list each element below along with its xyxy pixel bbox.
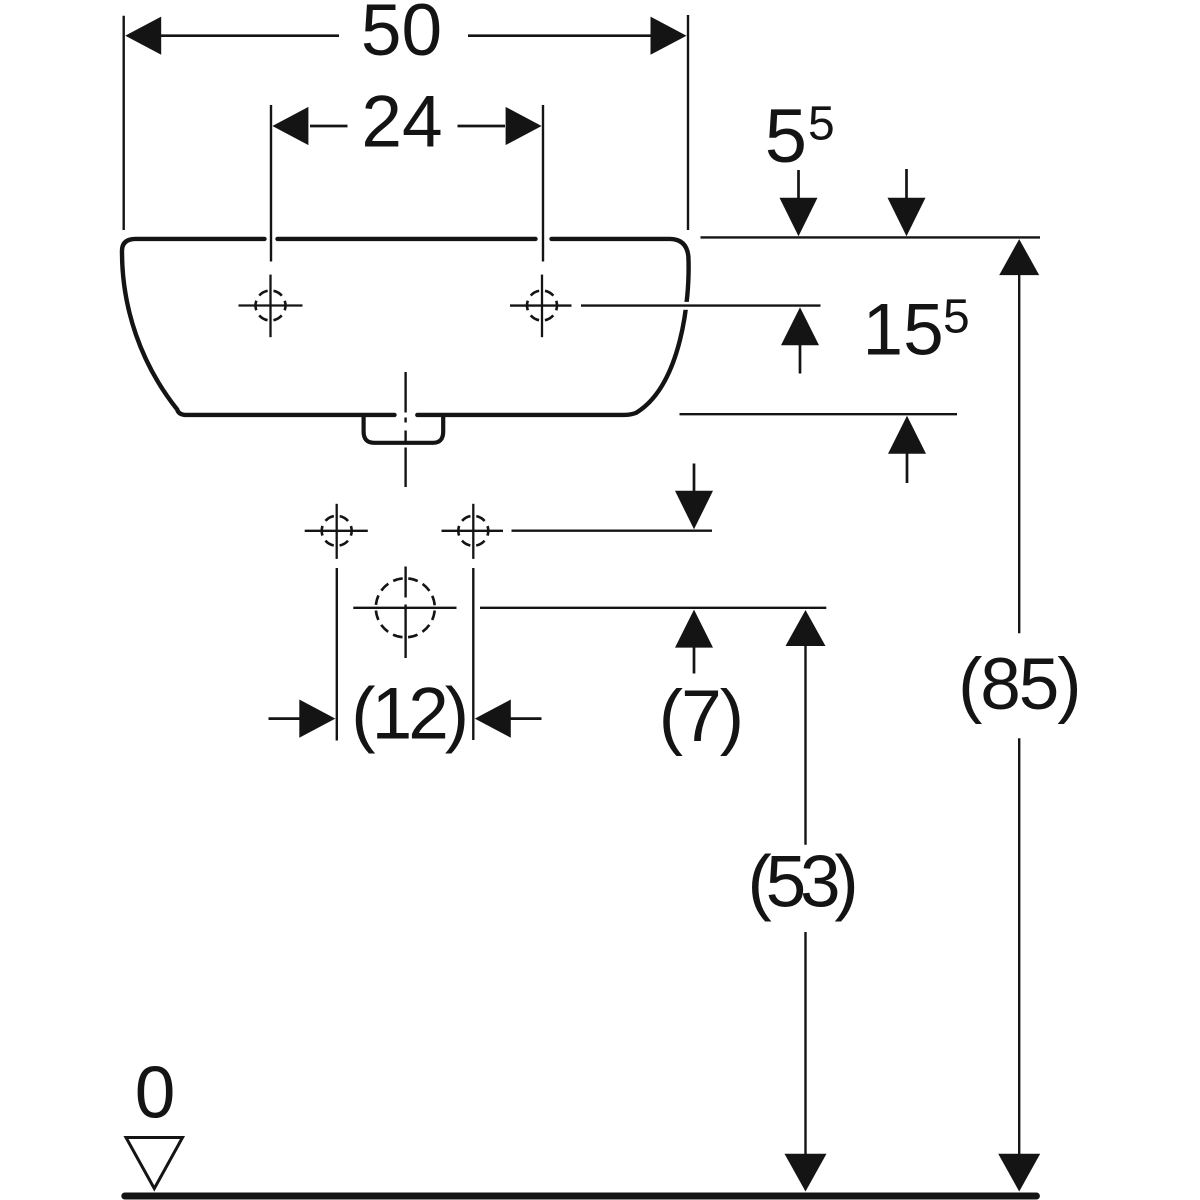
upper left fixing hole crosshair [239, 304, 303, 306]
extension line right of dim 50 [687, 15, 689, 230]
svg-text:(85): (85) [958, 644, 1079, 725]
washbasin outline: top right and right side [417, 239, 688, 415]
lower left fixing hole crosshair [305, 530, 368, 532]
svg-text:24: 24 [361, 82, 442, 163]
tap hole axis reference line [510, 304, 572, 306]
dim 85 down arrowhead at floor [998, 1154, 1040, 1192]
dim 85 line lower segment [1018, 738, 1020, 1154]
svg-text:(53): (53) [747, 841, 854, 922]
dimension line 24 right segment [458, 125, 506, 128]
extension line left of dim 24 [270, 105, 272, 262]
top reference line (rim level) [701, 236, 1041, 238]
vertical centerline through mixer hole [404, 567, 406, 598]
upper right fixing hole crosshair [541, 275, 543, 338]
vertical centerline through drain [404, 372, 406, 413]
datum level triangle [126, 1138, 183, 1189]
dimension line 50 left segment [160, 34, 339, 37]
up arrow of dim 7 at mixer axis [675, 610, 713, 648]
arrowhead 24 left [272, 107, 308, 145]
dimension line 24 left segment [310, 125, 348, 128]
dimension line 50 right segment [468, 34, 652, 37]
mixer hole axis reference line right part [480, 607, 826, 609]
dim 53 line lower segment [804, 932, 806, 1154]
dim 53 up arrowhead [786, 610, 826, 646]
lower right fixing hole crosshair [442, 530, 504, 532]
svg-text:5: 5 [808, 98, 835, 151]
dim 85 line upper segment [1018, 275, 1020, 633]
gap in outline where tap hole axis line crosses [679, 302, 692, 310]
siphon cover notch [364, 416, 444, 443]
arrowhead 50 left [125, 17, 161, 55]
up arrow of dim 15.5 below basin bottom line [888, 416, 926, 454]
svg-text:5: 5 [943, 291, 970, 344]
arrowhead 24 right [506, 107, 542, 145]
extension line left of dim 12 [336, 568, 338, 741]
svg-text:(12): (12) [351, 674, 465, 755]
lower hole axis reference line [512, 530, 713, 532]
extension line left of dim 50 [122, 16, 124, 230]
dim 53 down arrowhead at floor [785, 1154, 827, 1192]
basin bottom reference line [680, 413, 958, 415]
down arrow of dim 15.5 at top reference line [905, 169, 908, 199]
dim 12 left arrow [269, 717, 301, 720]
svg-text:(7): (7) [659, 676, 742, 757]
extension line right of dim 12 [472, 568, 474, 740]
dim 85 up arrowhead [999, 239, 1039, 275]
dim 53 line upper segment [804, 646, 806, 845]
extension line right of dim 24 [542, 105, 544, 262]
up arrow of dim 5.5 below tap hole axis [781, 307, 819, 345]
washbasin outline: left side and bottom [122, 239, 395, 415]
floor line [125, 1193, 1037, 1200]
dim 12 right arrow [475, 700, 511, 738]
svg-text:50: 50 [361, 0, 442, 71]
svg-text:15: 15 [863, 290, 944, 371]
svg-text:0: 0 [135, 1053, 176, 1134]
washbasin outline: top middle segment [278, 237, 536, 241]
mixer tap hole dashed circle [376, 578, 435, 637]
arrowhead 50 right [651, 17, 687, 55]
down arrow of dim 7 at lower hole axis [693, 464, 696, 494]
down arrow of dim 5.5 at top reference line [797, 170, 800, 199]
mixer hole axis line left part [353, 607, 456, 609]
svg-text:5: 5 [765, 94, 807, 179]
